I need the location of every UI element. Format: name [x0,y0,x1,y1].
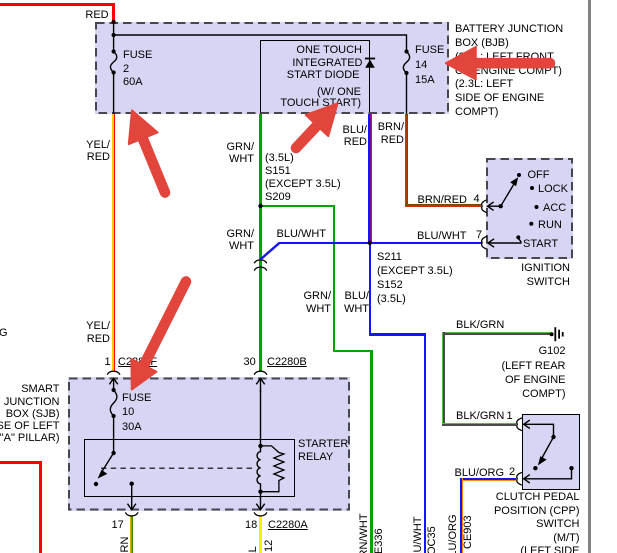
ignition switch dashed border [487,159,572,258]
wire GRN SJB pin17 down [130,516,133,553]
label START [523,238,558,251]
fuse F2 60A [110,49,116,74]
wire BLU/WHT S211 down [369,243,371,335]
wire BLU/ORG down C903 [460,478,463,553]
label diode box line3 [287,69,360,82]
label rotated circuit 12 pin18 wire [263,539,275,551]
wire coil to pin18 [260,492,262,498]
label splice S151/S209 [265,152,341,204]
wire GRN/WHT to starter C336 [370,350,373,553]
label diode box line4 [317,86,361,99]
label ground G102 [502,344,566,401]
wire GRN/WHT S209 branch horizontal [260,205,335,207]
wire relay contact to pin17 [131,484,133,498]
wire BRN/RED fuse14 down [405,114,408,206]
node CPP contact B [533,466,537,470]
wire YEL SJB pin18 down [259,516,262,553]
wire RED lower-left horizontal [0,461,42,464]
label ignition pin 4 [474,193,480,206]
annotation arrow A1 (points at fuse 2 area) [129,111,165,193]
label starter relay [298,438,348,464]
label CPP pin 2 [509,466,515,479]
SJB smart junction box (dashed) [68,377,350,511]
label rotated C35 [426,526,438,553]
label partial G at left edge [0,327,8,340]
label GRN/WHT lower branch [304,290,332,315]
label battery junction box [455,23,563,119]
wire YEL/RED fuse2 to SJB [112,114,115,371]
label BLK/GRN lower [456,410,504,423]
label fuse F14 value [415,43,444,88]
ground symbol G102 [550,327,563,341]
label rotated YEL pin18 wire [247,546,259,553]
label RED [85,9,108,22]
label SJB pin 30 [244,356,256,369]
ignition switch arm to OFF [501,177,519,206]
label BLK/GRN upper [456,319,504,332]
connector pin7 arc ignition [482,236,487,249]
label BLU/WHT at pin7 [417,230,467,243]
wire GRN/WHT branch jog horizontal [333,350,373,352]
label GRN/WHT upper [227,141,255,166]
node relay contact right [130,482,134,486]
connector C2280A arc below pin17 [125,512,138,516]
BJB dashed border [96,23,448,113]
label rotated BLU/ORG at C903 [447,514,459,553]
label BLU/WHT lower [344,290,369,315]
label clutch pedal position switch [494,491,580,553]
label BLU/ORG [455,467,505,480]
label LOCK [538,183,568,196]
wire BRN/RED to ignition pin4 [405,204,481,207]
label YEL/RED upper [86,139,110,164]
label RUN [538,219,562,232]
wire BLU/WHT jog horizontal [369,333,427,335]
label diode box line2 [292,57,362,70]
node LOCK position [530,186,534,190]
SJB pin1 entry arrow [109,378,117,390]
connector C2280B arc above SJB pin30 [254,371,267,375]
wire fuse2 bottom to box edge [113,73,115,115]
label splice S211/S152 [377,250,453,307]
label rotated BLU/WHT at C35 [412,517,424,553]
connector inline on GRN/WHT (double arcs) [254,260,267,271]
node relay switch pivot [111,451,115,455]
relay switch arm [98,453,114,479]
CPP switch arm [538,437,554,465]
label SJB pin 18 [245,519,257,532]
SJB pin17 exit arrow [128,497,136,510]
connector arc below pin18 [254,512,267,516]
node RUN position [529,222,533,226]
annotation arrow A4 (points at fuse 10) [131,282,186,390]
label rotated GRN pin17 wire [119,536,131,553]
wire fuse10 to relay switch [113,416,115,453]
SJB pin18 exit arrow [256,497,264,510]
label diode box line5 [280,97,361,110]
wire BLU/WHT S211 to ignition pin7 [279,242,482,244]
label GRN/WHT mid [227,228,255,253]
CPP pin2 entry arrow [524,468,572,483]
node ACC position [535,205,539,209]
node ignition movable contact [499,204,503,208]
node OFF position [517,173,521,177]
label fuse F2 value [123,49,152,90]
wire BLK/GRN vertical [442,332,445,425]
label BRN/RED horizontal [418,194,468,207]
annotation arrow A2 (points at start diode) [296,104,338,149]
label diode box line1 [296,44,362,57]
starter relay box K1 [84,439,295,497]
label CPP pin 1 [507,410,513,423]
pin4 entry arrow [488,202,501,210]
clutch pedal position switch box [522,414,580,490]
resistor R1 relay shunt [261,446,284,492]
wire GRN/WHT diode box to SJB pin30 [259,114,262,371]
connector CPP pin2 arc [517,472,522,485]
label connector C2280F [118,356,157,369]
node CPP contact A [551,435,555,439]
wire pin30 to relay coil [260,390,262,446]
wire BLU/RED diode to S211 [368,114,371,243]
ignition switch box SW1 (dashed) [486,158,573,259]
wire BLU/ORG CPP pin2 horizontal [460,478,516,481]
wire BJB internal bus to fuse 14 [114,35,407,52]
wire RED feed horizontal [0,3,115,6]
label ignition pin 7 [476,229,482,242]
label ignition switch [521,262,570,289]
label BLU/WHT horizontal [277,228,327,241]
label SJB pin 17 [112,519,124,532]
CPP pin1 entry arrow [524,420,554,437]
node coil bottom [258,490,262,494]
label OFF [528,169,550,182]
label ACC [543,202,566,215]
relay mechanical link (dashed) [101,467,256,469]
connector CPP pin1 arc [517,418,522,431]
diode CR1 one-touch start diode [365,58,375,68]
label fuse F10 value [122,391,151,435]
node coil top [258,444,262,448]
node S209 splice dot [258,204,262,208]
annotation arrow A3 (points at fuse 14) [446,47,550,79]
wire BLK/GRN to CPP pin1 [442,423,516,426]
label BLU/RED [343,124,367,149]
gray screen divider line [588,0,591,553]
connector pin4 arc ignition [482,200,487,213]
label rotated GRN/WHT at C336 [358,513,370,553]
node bus junction [112,33,116,37]
label smart junction box [0,383,60,444]
label rotated C336 [373,528,385,553]
wire BLK/GRN G102 horizontal [443,332,550,335]
wire BJB internal feed stub [113,22,115,52]
node START position [516,235,520,239]
fuse F14 15A [403,49,409,75]
wire GRN/WHT branch vertical [333,205,335,353]
label SJB pin 1 [105,356,111,369]
node S211 splice dot [368,241,372,245]
BJB battery junction box (dashed) [95,22,449,114]
pin7 entry arrow from START [488,239,521,247]
node BJB feed dot at box edge [112,20,116,24]
SJB pin30 entry arrow [256,378,264,392]
label rotated CE903 [462,515,474,549]
connector C2280F arc above SJB pin1 [107,371,120,375]
label connector C2280A [268,519,308,532]
label YEL/RED lower [86,320,110,345]
wire fuse14 bottom to box edge [406,73,408,114]
fuse F10 30A [110,388,117,418]
wire BLU/WHT diagonal to connector [261,243,280,260]
node CPP contact C [569,466,573,470]
node relay contact left [94,482,98,486]
wire BLU/WHT to starter C35 [424,333,427,553]
one touch integrated start diode box U1 [260,40,370,114]
relay coil L1 (arcs) [257,446,260,492]
SJB dashed border [69,379,349,510]
label connector C2280B [267,356,307,369]
wire RED lower-left vertical [39,461,42,553]
label BRN/RED vertical wire [378,121,404,146]
wire RED feed vertical [112,3,115,23]
